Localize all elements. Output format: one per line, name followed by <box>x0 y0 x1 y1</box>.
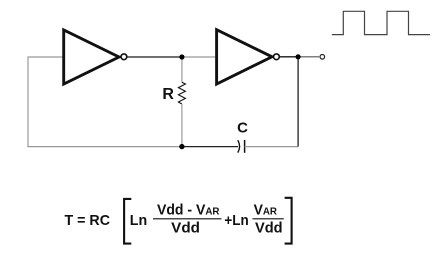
formula: fraction bar 2 <box>253 218 284 220</box>
output terminal (open circle) <box>320 55 325 60</box>
wire: node A to inverter U2 input <box>182 56 217 58</box>
capacitor C1 <box>238 140 245 153</box>
resistor R1 zigzag <box>178 82 185 104</box>
svg-text:Vdd: Vdd <box>171 219 200 236</box>
wire: input horizontal to inverter U1 <box>28 56 65 58</box>
square wave output symbol <box>332 11 430 34</box>
wire: bottom horizontal left (feedback to node B) <box>28 146 183 148</box>
wire: node C to output terminal <box>298 56 319 58</box>
inverter U2 <box>217 30 280 84</box>
wire: capacitor to riser <box>245 146 299 148</box>
wire: feedback vertical left <box>27 57 29 148</box>
inverter U1 <box>64 30 127 84</box>
node C (output junction) <box>296 54 301 59</box>
wire: riser from bottom wire to node C <box>297 57 299 147</box>
wire: resistor top lead <box>181 57 183 83</box>
formula: fraction bar 1 <box>153 218 222 220</box>
svg-text:Ln: Ln <box>130 212 147 229</box>
wire: U1 output to node A <box>127 56 182 58</box>
svg-text:+Ln: +Ln <box>224 212 248 229</box>
svg-text:Vdd: Vdd <box>255 219 283 236</box>
wire: resistor bottom lead <box>181 104 183 147</box>
svg-text:T = RC: T = RC <box>65 212 111 229</box>
node A (junction of U1 out / R / U2 in) <box>179 54 184 59</box>
formula: right bracket <box>285 198 292 244</box>
node B (junction R / C wire) <box>179 144 184 149</box>
wire: node B to capacitor <box>182 146 238 148</box>
svg-text:R: R <box>162 86 174 103</box>
wire: U2 output to node C <box>280 56 298 58</box>
formula: left bracket <box>124 199 131 244</box>
svg-text:C: C <box>237 120 248 137</box>
